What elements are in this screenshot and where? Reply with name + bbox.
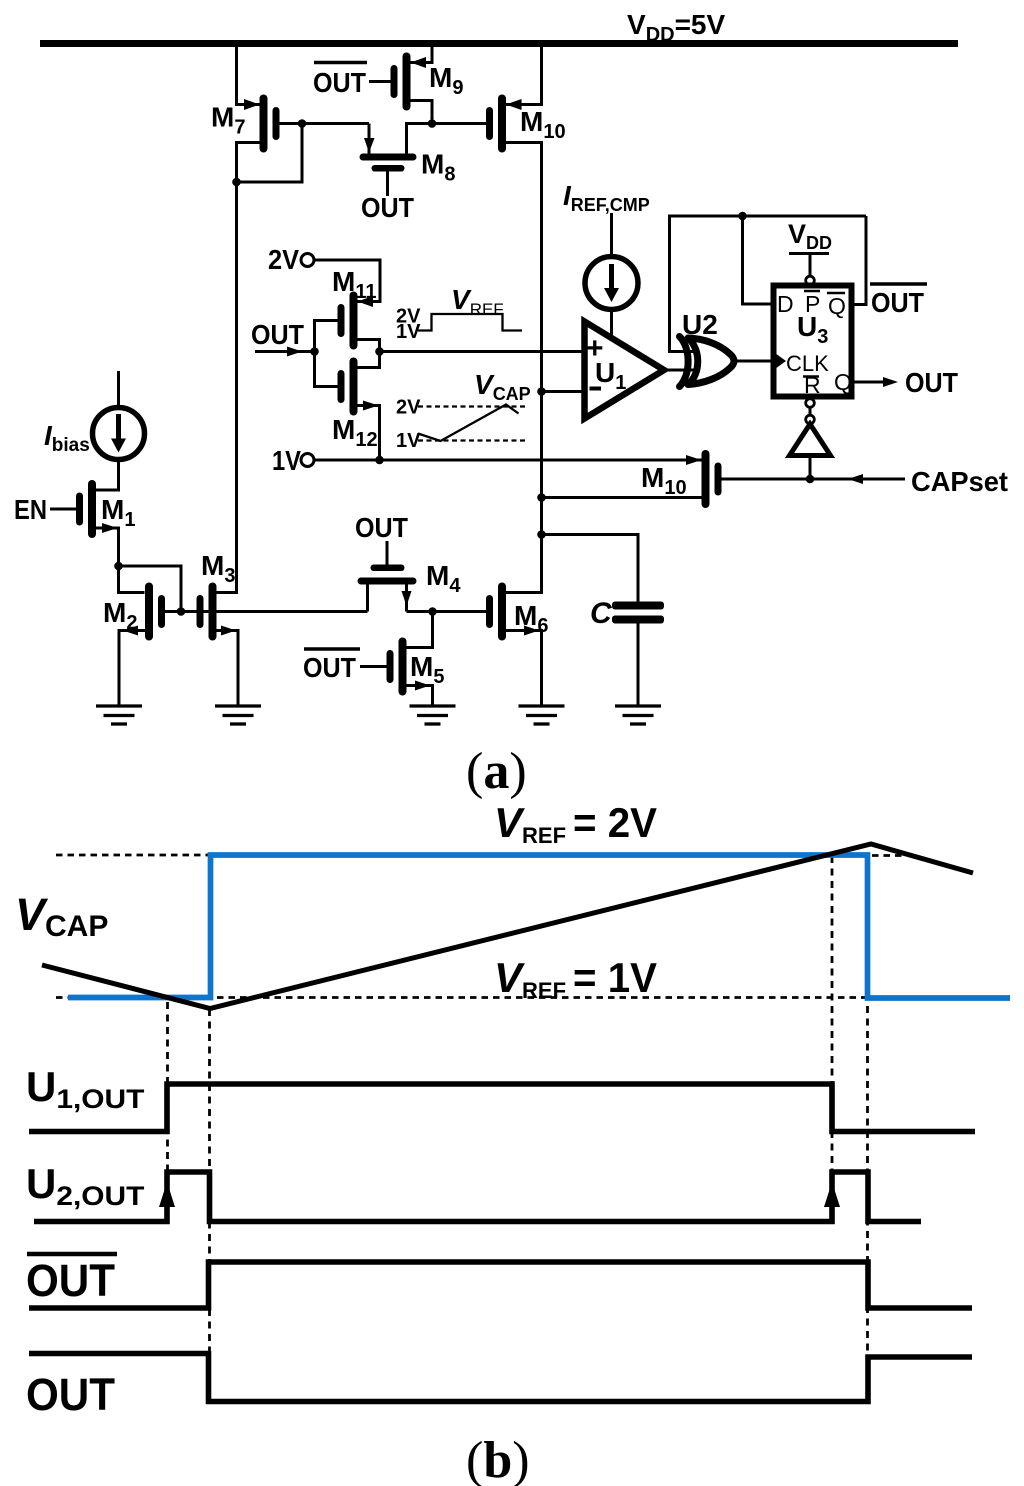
power bar VDD <box>789 252 829 255</box>
svg-text:1V: 1V <box>396 321 421 343</box>
wire M7 gate node to M8 left lead <box>302 122 369 125</box>
inset VCAP 1V dashed line <box>418 439 527 441</box>
transistor M6 <box>486 583 539 641</box>
part b: overbar of OUTbar <box>27 1252 117 1257</box>
wire mirror gate line <box>165 610 368 613</box>
part b: OUTbar waveform <box>29 1262 972 1308</box>
wire OUTbar to M9 gate <box>369 80 391 83</box>
part b: dashed 1V level line <box>56 996 1010 999</box>
part b: dashed vertical at VCAP minimum <box>208 1009 211 1402</box>
terminal 1V <box>301 454 314 467</box>
svg-text:OUT: OUT <box>26 1369 115 1420</box>
transistor M9 <box>391 53 427 111</box>
part b: dashed 2V level line <box>56 854 208 857</box>
part b: arrow on second U2 edge <box>824 1182 840 1207</box>
overbar of OUTbar right <box>870 282 927 286</box>
wire M4 left lead <box>366 585 369 612</box>
wire Ibias to M1 drain <box>96 460 119 491</box>
wire node to M10 gate <box>432 122 486 125</box>
wire M7 gate-drain feedback <box>237 124 303 183</box>
wire Q output with arrow <box>852 381 885 384</box>
node M7 drain junction <box>232 178 241 187</box>
svg-text:OUT: OUT <box>303 652 356 683</box>
wire M8 left lead with arrow <box>368 124 371 154</box>
part b: dashed 2V level right of peak <box>872 854 903 857</box>
bubble preset active-low <box>806 276 815 285</box>
wire capacitor to ground <box>637 624 640 707</box>
part b: U2 output waveform <box>34 1172 921 1222</box>
inset VCAP waveform <box>418 405 519 442</box>
wire inverter input to CAPset line <box>809 456 812 480</box>
transistor M3 <box>197 583 237 641</box>
svg-text:D: D <box>777 291 794 317</box>
pin CLK with wedge <box>774 352 787 370</box>
wire M12 source to 1V <box>358 406 380 461</box>
ground below M2 <box>96 706 142 724</box>
svg-text:= 1V: = 1V <box>573 954 657 1001</box>
wire VDD bar to preset bubble <box>809 254 812 277</box>
wire M7 drain to M3 drain (long vertical) <box>217 182 237 593</box>
svg-text:= 2V: = 2V <box>573 799 657 846</box>
transistor M10 switch <box>702 450 722 508</box>
node M10 switch on VCAP line <box>537 493 546 502</box>
svg-text:OUT: OUT <box>355 512 408 543</box>
wire bias node to mirror gates <box>119 566 182 612</box>
wire OUT input with arrow <box>255 350 315 353</box>
svg-text:Q: Q <box>834 369 852 395</box>
wire M7 gate lead <box>280 122 303 125</box>
wire M6 source to ground <box>506 631 542 707</box>
ground below capacitor <box>615 706 661 724</box>
wire M4 right lead <box>405 585 408 612</box>
wire feedback to D input <box>743 216 774 304</box>
part b: OUT waveform <box>29 1354 972 1402</box>
part b: VCAP black waveform <box>42 844 973 1009</box>
transistor M1 <box>76 480 118 538</box>
wire M7 drain down <box>237 143 260 183</box>
wire M12 gate <box>315 352 338 387</box>
transistor M4 <box>358 565 417 607</box>
wire M5 drain to node <box>407 612 433 648</box>
current source Ibias <box>93 408 145 460</box>
node capacitor tap <box>537 530 546 539</box>
wire IREF,CMP to current source <box>610 213 613 257</box>
inset VCAP 2V dashed line <box>418 405 527 407</box>
wire VREF to U1 plus input <box>380 350 585 353</box>
svg-text:OUT: OUT <box>871 287 924 318</box>
terminal 2V <box>301 254 314 267</box>
capacitor C <box>612 602 664 624</box>
wire VDD to M9 source <box>411 47 433 63</box>
svg-text:C: C <box>590 597 613 630</box>
svg-text:1V: 1V <box>272 445 301 476</box>
node M4 M5 M6 junction <box>428 607 437 616</box>
wire VCAP to U1 minus input <box>542 390 585 393</box>
svg-text:2V: 2V <box>268 244 299 275</box>
node M9 drain junction <box>428 119 437 128</box>
overbar of OUTbar M9 <box>314 61 367 65</box>
node bias <box>114 562 123 571</box>
wire VDD to M7 source <box>237 47 260 105</box>
svg-text:EN: EN <box>14 494 47 525</box>
ground below M5 <box>410 706 456 724</box>
wire M3 source to ground <box>217 631 239 707</box>
wire M10 switch gate CAPset <box>722 478 906 481</box>
part b: U1 output waveform <box>29 1084 975 1132</box>
svg-text:CAPset: CAPset <box>911 466 1008 497</box>
part b: arrow on first U2 edge <box>159 1182 175 1207</box>
node mirror gate <box>177 607 186 616</box>
node CAPset junction <box>806 475 815 484</box>
bubble reset active-low <box>806 399 815 408</box>
xor gate U2 <box>680 337 735 387</box>
wire M9 drain to node <box>411 101 433 124</box>
part b: dashed vertical at 2V crossing <box>831 856 834 1171</box>
op-amp comparator U1 <box>585 322 665 419</box>
wire M4 to M6 gate <box>407 610 487 613</box>
svg-text:OUT: OUT <box>251 319 304 350</box>
wire above Ibias <box>117 371 120 408</box>
node feedback junction <box>738 212 747 221</box>
wire current source to U1 <box>610 310 613 338</box>
wire M2 source to ground <box>119 631 145 707</box>
wire U1 output to U2 <box>664 369 699 372</box>
transistor M8 <box>360 154 417 172</box>
wire M11 gate <box>315 321 338 352</box>
wire M10 switch drain to VCAP <box>542 496 702 499</box>
wire U2 output to CLK <box>737 360 774 363</box>
svg-text:OUT: OUT <box>26 1255 115 1306</box>
power rail VDD=5V <box>40 40 958 47</box>
wire M1 source to bias node <box>96 528 119 566</box>
transistor M12 <box>338 358 379 416</box>
node M7 gate junction <box>298 119 307 128</box>
wire 2V to M11 source <box>314 260 380 302</box>
wire bias node to M2 drain <box>119 566 145 593</box>
wire M4 gate <box>386 541 389 565</box>
wire EN to M1 gate <box>50 508 76 511</box>
wire M12 drain to VREF node <box>358 352 380 368</box>
transistor M7 <box>244 95 280 153</box>
wire feedback to U2 upper input <box>670 216 867 352</box>
flip-flop U3 box <box>774 286 852 397</box>
wire M11 drain to VREF node <box>358 340 380 352</box>
transistor M5 <box>387 638 431 696</box>
wire OUTbar to M5 gate <box>360 665 387 668</box>
part b: dashed vertical at VCAP peak <box>866 856 869 1402</box>
node OUT input junction <box>310 347 319 356</box>
svg-text:(a): (a) <box>466 743 527 800</box>
wire M10 drain VCAP vertical <box>506 143 542 593</box>
ground below M6 <box>519 706 565 724</box>
wire Qbar to feedback <box>852 216 867 305</box>
wire VDD to M10 source <box>506 47 542 105</box>
overbar of OUTbar M5 <box>304 647 360 651</box>
wire node to M8 right lead <box>407 124 433 154</box>
node VCAP on minus input <box>537 387 546 396</box>
current source IREF,CMP <box>585 257 638 310</box>
inverter triangle <box>790 424 831 456</box>
svg-text:(b): (b) <box>466 1432 530 1486</box>
svg-text:1V: 1V <box>396 430 421 452</box>
svg-text:OUT: OUT <box>313 67 366 98</box>
wire U3 reset to inverter <box>809 397 812 425</box>
transistor M2 <box>123 583 165 641</box>
bubble inverter output <box>806 415 815 424</box>
inset VREF waveform <box>418 314 522 331</box>
svg-text:2V: 2V <box>396 397 421 419</box>
part b: VREF blue waveform <box>68 855 1010 998</box>
ground below M3 <box>215 706 261 724</box>
svg-text:Q: Q <box>828 293 846 319</box>
node M12 source on 1V line <box>375 456 384 465</box>
wire VCAP to capacitor <box>542 535 639 602</box>
transistor M10 top <box>486 95 522 153</box>
wire M8 gate lead <box>386 172 389 197</box>
svg-text:OUT: OUT <box>361 192 414 223</box>
wire M5 source to ground <box>407 686 433 707</box>
transistor M11 <box>338 292 374 350</box>
node VREF <box>375 347 384 356</box>
part b: dashed vertical at first 1V crossing <box>166 1002 169 1170</box>
svg-text:OUT: OUT <box>905 367 958 398</box>
wire 1V line to M10 switch <box>314 459 702 462</box>
